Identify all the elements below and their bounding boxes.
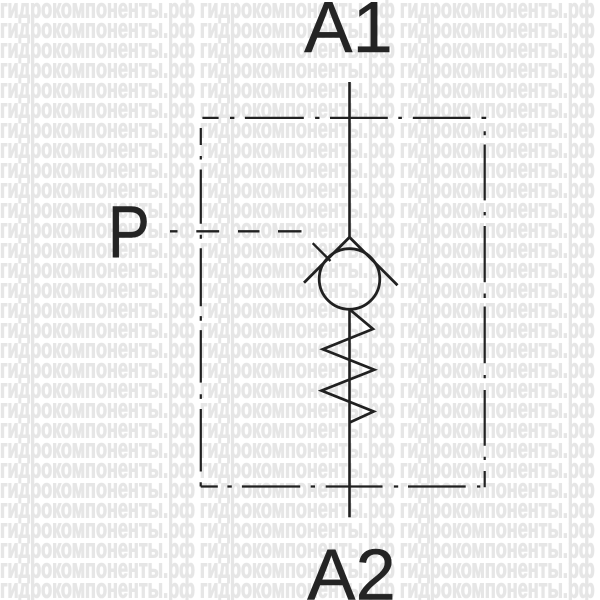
enclosure boundary right (dash-dot) <box>484 131 486 487</box>
wire from valve down to port A2 <box>348 309 351 517</box>
enclosure boundary left (dash-dot) <box>200 128 202 472</box>
wire from port A1 down to valve seat <box>348 82 351 237</box>
svg-text:A1: A1 <box>304 0 393 68</box>
check valve ball (circle) <box>319 249 380 310</box>
svg-text:P: P <box>108 191 150 274</box>
enclosure boundary top (dash-dot) <box>202 117 486 119</box>
dashed pilot line from P to valve <box>170 231 331 261</box>
svg-text:A2: A2 <box>307 535 396 600</box>
check valve seat (V) <box>304 237 398 285</box>
spring below valve <box>322 309 375 422</box>
svg-text:гидрокомпоненты.рф гидрокомпон: гидрокомпоненты.рф гидрокомпоненты.рф ги… <box>0 574 600 600</box>
enclosure boundary bottom (dash-dot) <box>201 482 481 486</box>
